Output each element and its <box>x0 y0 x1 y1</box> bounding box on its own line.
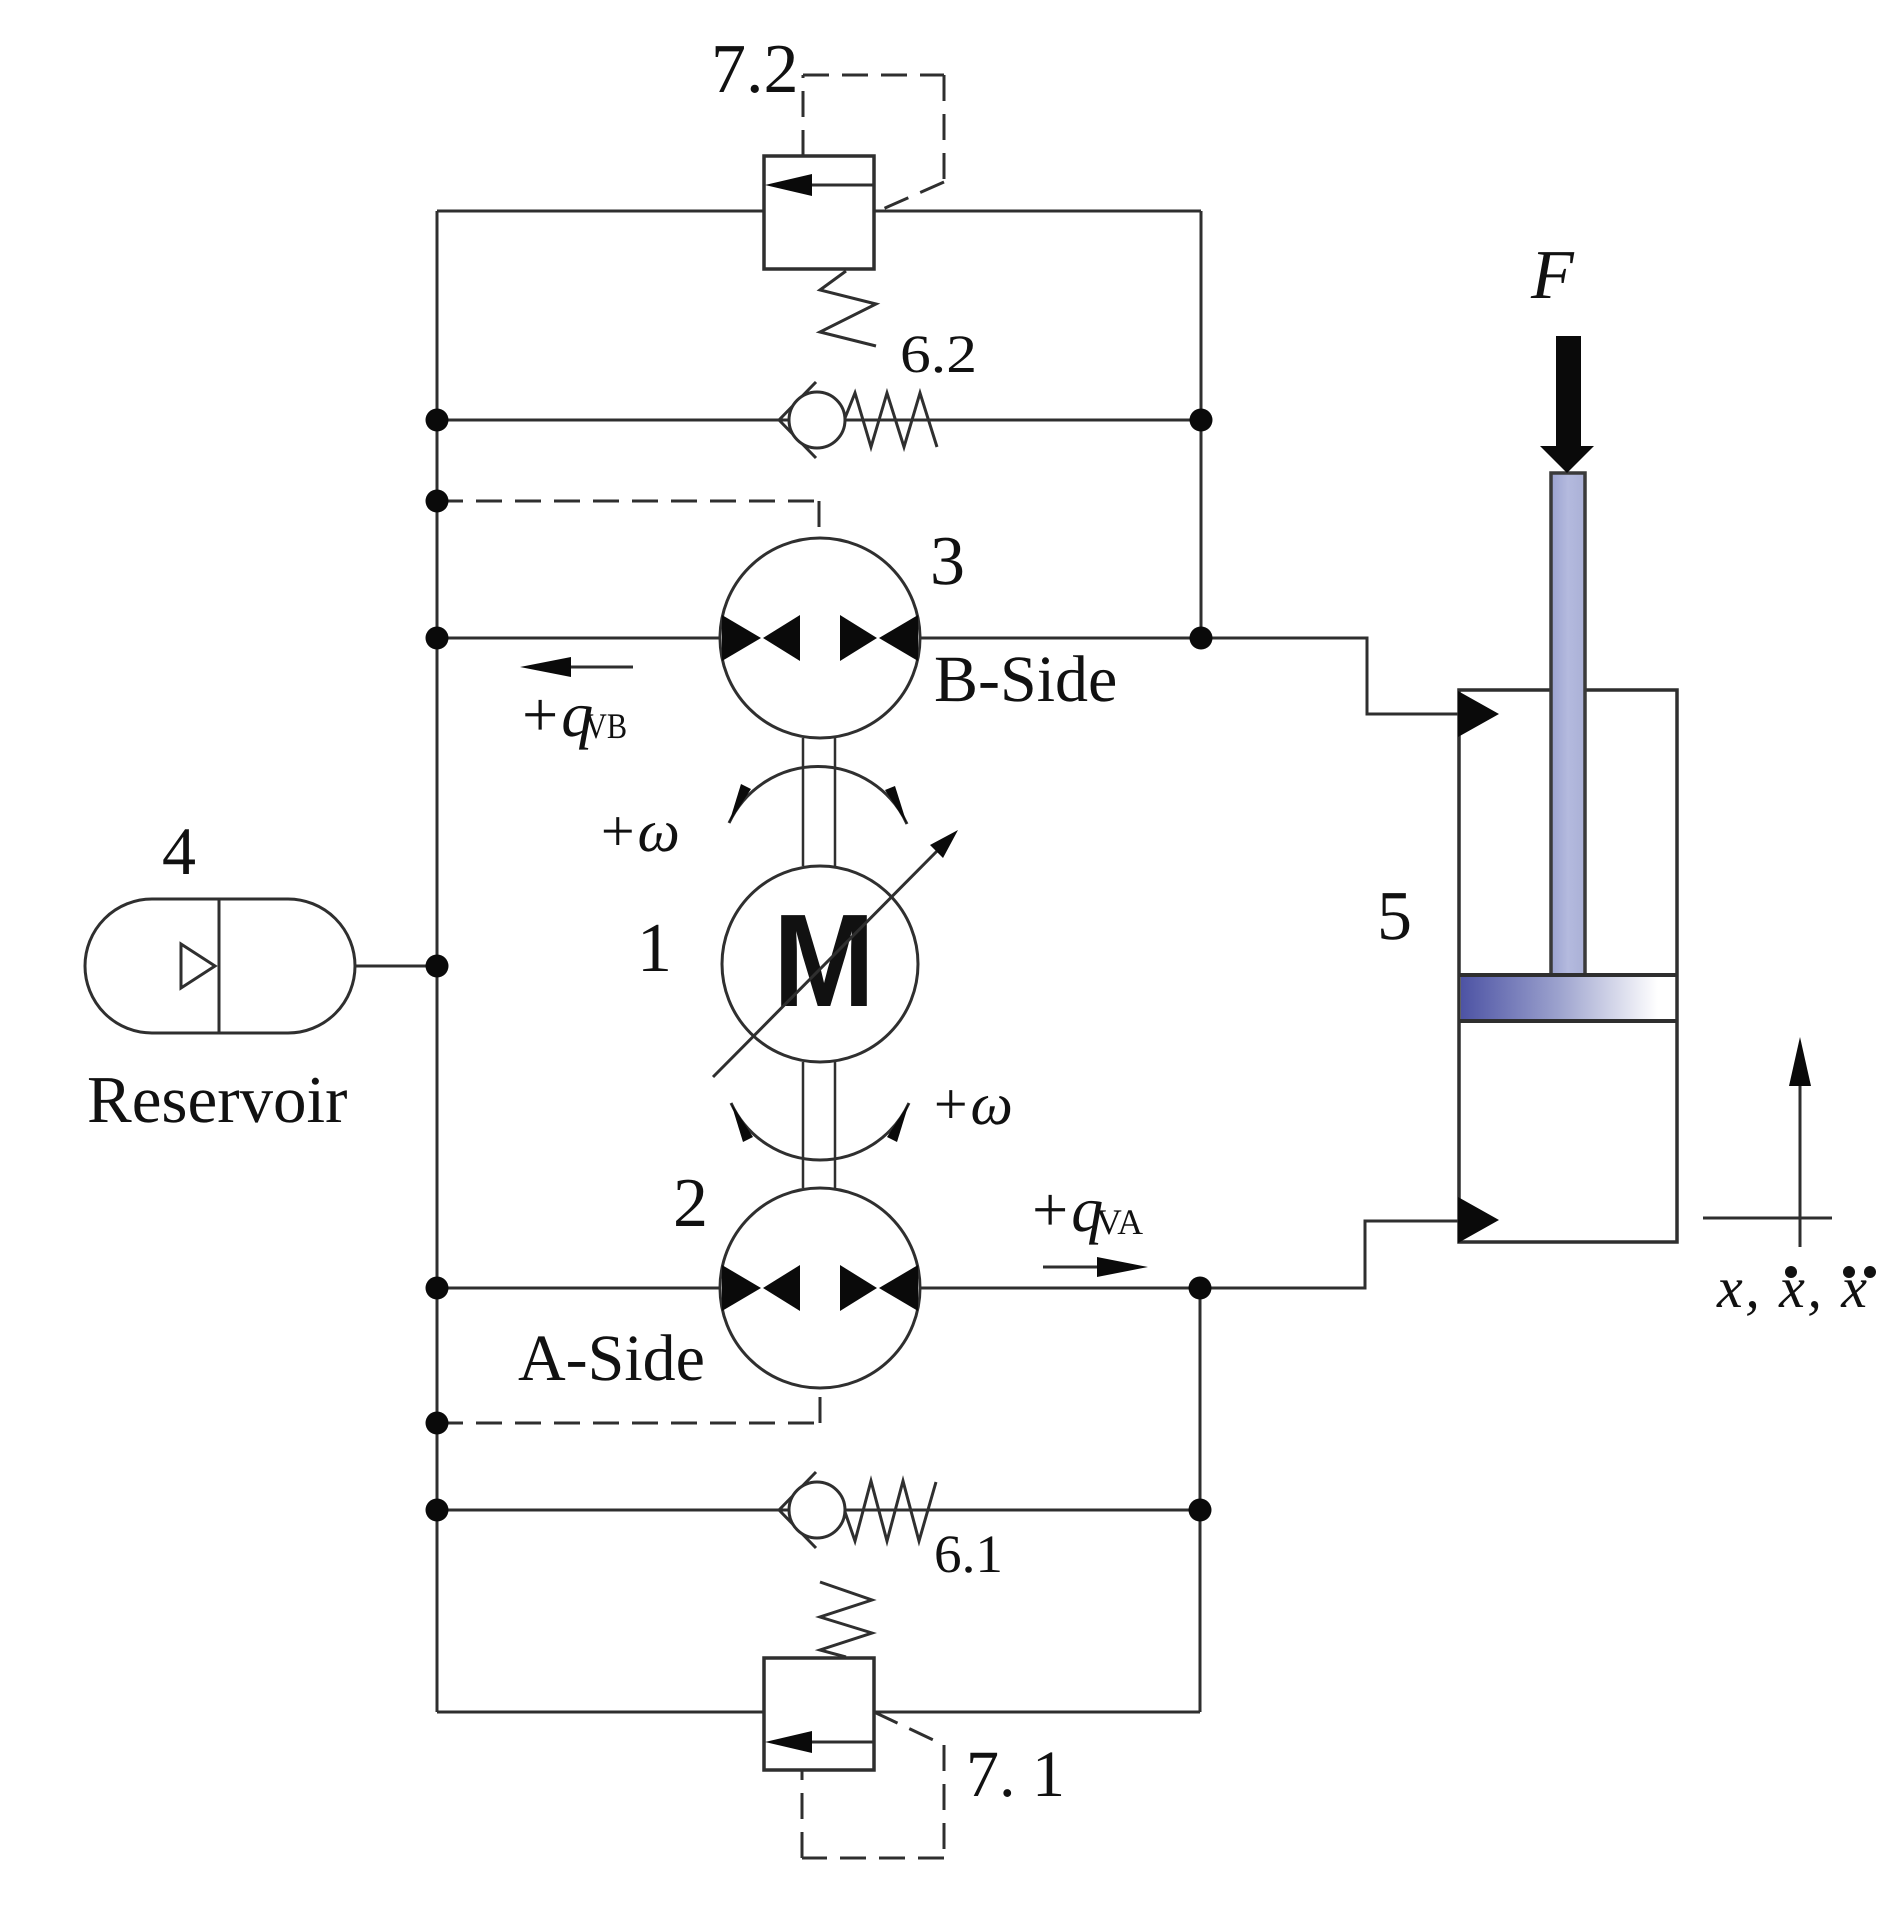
dots for xdot and xddot <box>1785 1266 1876 1278</box>
wire dashed control line lower (pump 2) <box>437 1388 820 1423</box>
node right pump2 <box>1189 1277 1212 1300</box>
svg-text:+q: +q <box>1028 1174 1103 1245</box>
spring of 7.1 <box>820 1582 872 1657</box>
rotation arc lower with arrows <box>731 1103 909 1160</box>
spring of 6.2 <box>845 393 937 447</box>
svg-text:1: 1 <box>637 910 672 987</box>
svg-text:7.2: 7.2 <box>711 31 799 108</box>
shaft pump3-motor <box>803 738 835 866</box>
wire dashed pilot line 7.1 <box>802 1712 944 1858</box>
node left reservoir <box>426 955 449 978</box>
wire right rail lower <box>1199 1288 1202 1712</box>
node left dashed upper <box>426 490 449 513</box>
motor M (1), variable displacement <box>713 830 958 1077</box>
node left pump2 <box>426 1277 449 1300</box>
node right pump3 <box>1190 627 1213 650</box>
wire dashed control line upper (pump 3) <box>437 501 819 538</box>
svg-text:+ω: +ω <box>930 1071 1013 1137</box>
wire left rail <box>436 211 439 1712</box>
shaft motor-pump2 <box>803 1062 835 1188</box>
accumulator 4 (reservoir) <box>85 899 355 1033</box>
pump 3 (B-side) <box>720 538 920 738</box>
svg-text:VB: VB <box>585 706 627 746</box>
wire pump 3 line <box>437 637 1201 640</box>
relief valve 7.2 <box>764 156 876 346</box>
flow arrow +qVB <box>520 657 633 677</box>
wire dashed pilot line 7.2 <box>803 75 944 212</box>
svg-text:VA: VA <box>1096 1202 1143 1242</box>
svg-text:7. 1: 7. 1 <box>966 1738 1065 1811</box>
flow arrow +qVA <box>1043 1257 1148 1277</box>
wire pump 2 line <box>437 1287 1200 1290</box>
svg-text:F: F <box>1530 237 1575 314</box>
force F arrow <box>1540 336 1594 473</box>
svg-text:3: 3 <box>930 523 965 600</box>
cylinder 5 <box>1458 473 1677 1243</box>
piston rod <box>1551 473 1585 977</box>
check valve 6.2 <box>779 382 937 458</box>
axis x arrow <box>1703 1037 1832 1247</box>
node left 6.2 <box>426 409 449 432</box>
wire reservoir connection <box>355 965 437 968</box>
wire check valve 6.1 line <box>437 1509 1200 1512</box>
node right 6.2 <box>1190 409 1213 432</box>
svg-text:+q: +q <box>518 679 593 750</box>
node left dashed lower <box>426 1412 449 1435</box>
port arrow lower <box>1458 1197 1499 1243</box>
svg-text:B-Side: B-Side <box>934 643 1117 716</box>
svg-text:6.2: 6.2 <box>900 324 977 384</box>
wire bottom rail <box>437 1711 1200 1714</box>
svg-text:2: 2 <box>673 1165 708 1242</box>
svg-text:A-Side: A-Side <box>518 1322 705 1395</box>
svg-text:4: 4 <box>162 813 196 889</box>
piston <box>1461 977 1675 1019</box>
junction dots <box>426 409 1213 1522</box>
svg-text:Reservoir: Reservoir <box>87 1063 347 1137</box>
svg-text:+ω: +ω <box>597 798 680 864</box>
node left 6.1 <box>426 1499 449 1522</box>
spring of 6.1 <box>845 1481 936 1541</box>
wire right rail upper <box>1200 211 1203 638</box>
rotation arc upper with arrows <box>729 767 907 824</box>
node left pump3 <box>426 627 449 650</box>
svg-text:x, x, x: x, x, x <box>1716 1255 1867 1320</box>
wire check valve 6.2 line <box>437 419 1201 422</box>
spring of 7.2 <box>820 271 876 346</box>
check valve 6.1 <box>779 1472 936 1548</box>
wire pump 2 to cylinder lower port <box>1200 1221 1459 1288</box>
wire pump 3 to cylinder upper port <box>1201 638 1459 714</box>
node right 6.1 <box>1189 1499 1212 1522</box>
svg-text:5: 5 <box>1377 878 1412 955</box>
svg-text:6.1: 6.1 <box>934 1524 1003 1584</box>
pump 2 (A-side) <box>720 1188 920 1388</box>
port arrow upper <box>1458 691 1499 737</box>
svg-text:M: M <box>773 887 875 1034</box>
wire top rail <box>437 210 1201 213</box>
relief valve 7.1 <box>764 1582 874 1770</box>
